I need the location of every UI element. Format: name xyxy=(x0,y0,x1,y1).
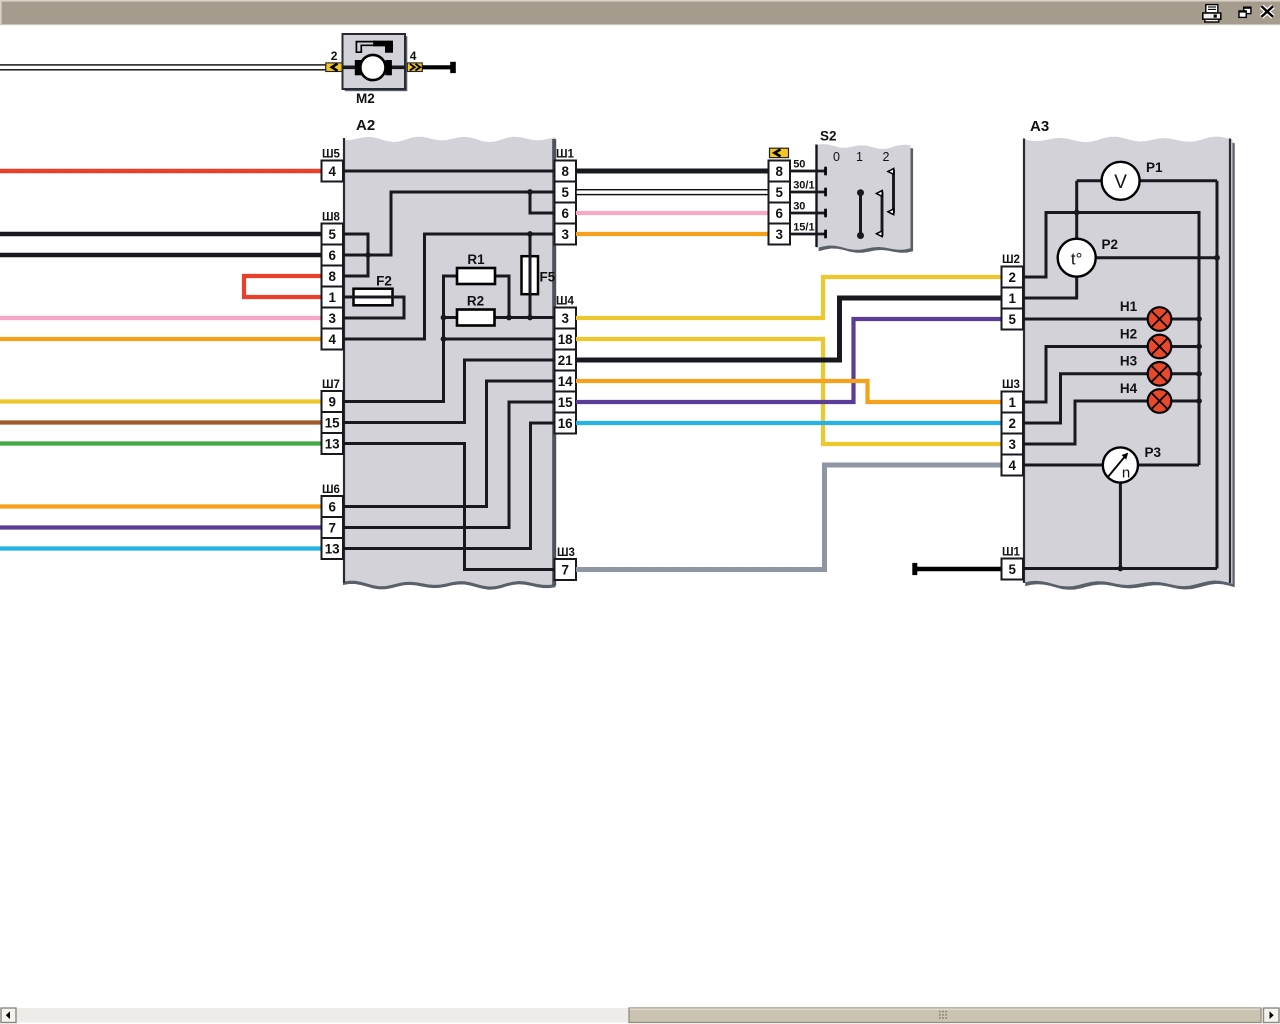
switch S2 block xyxy=(816,144,913,253)
svg-text:3: 3 xyxy=(561,227,568,242)
wire Ш2-5 to H1 xyxy=(1023,318,1148,321)
svg-text:Ш1: Ш1 xyxy=(556,149,575,161)
svg-text:P2: P2 xyxy=(1102,237,1119,252)
svg-text:7: 7 xyxy=(328,520,335,535)
svg-text:2: 2 xyxy=(331,49,338,63)
svg-text:H2: H2 xyxy=(1120,326,1137,341)
wire red jumper Ш8-8 to Ш8-1 xyxy=(244,276,322,297)
junction xyxy=(527,315,533,321)
svg-text:2: 2 xyxy=(1008,416,1015,431)
svg-text:16: 16 xyxy=(558,416,573,431)
wire black to Ш8-5 xyxy=(0,232,322,237)
svg-text:3: 3 xyxy=(775,227,782,242)
S2 contact bar position 2 inner xyxy=(876,191,882,237)
wire P1 left lead down to P2 xyxy=(1077,179,1102,182)
junction xyxy=(1214,255,1220,261)
wire F5 branch xyxy=(529,234,532,318)
wire orange Ш4-14 to Ш3-1 xyxy=(576,381,1002,402)
svg-text:6: 6 xyxy=(775,206,782,221)
svg-text:2: 2 xyxy=(1008,270,1015,285)
wire stub S2 row 6 xyxy=(790,212,826,215)
svg-text:21: 21 xyxy=(558,353,573,368)
svg-text:1: 1 xyxy=(1008,395,1016,410)
wire H4 right lead xyxy=(1171,400,1199,403)
svg-text:Ш7: Ш7 xyxy=(322,379,340,391)
svg-text:4: 4 xyxy=(410,49,417,63)
wire black from M2 pin 4 with terminal xyxy=(422,62,456,73)
wire orange Ш1-3 to S2 connector 3 xyxy=(576,232,769,236)
gauge P1 voltmeter xyxy=(1102,162,1140,200)
svg-text:50: 50 xyxy=(793,159,805,171)
junction xyxy=(1196,398,1202,404)
svg-text:4: 4 xyxy=(328,164,336,179)
lamp H1 xyxy=(1148,307,1172,331)
wire P2 bottom to Ш2-1 xyxy=(1023,277,1077,298)
print button xyxy=(1203,5,1221,22)
svg-text:1: 1 xyxy=(856,150,863,164)
wire H1 right lead xyxy=(1171,318,1199,321)
wire lightblue Ш4-16 to Ш3-2 xyxy=(576,421,1002,425)
close button xyxy=(1262,6,1274,16)
svg-text:Ш4: Ш4 xyxy=(556,296,575,308)
wire purple Ш4-15 to Ш2-5 xyxy=(576,319,1002,402)
svg-text:F5: F5 xyxy=(540,270,556,285)
svg-text:H4: H4 xyxy=(1120,381,1138,396)
junction xyxy=(365,252,371,258)
svg-text:3: 3 xyxy=(328,311,335,326)
svg-text:5: 5 xyxy=(1008,312,1016,327)
svg-text:7: 7 xyxy=(561,562,568,577)
svg-text:n: n xyxy=(1122,465,1130,482)
svg-text:A2: A2 xyxy=(356,117,375,134)
junction xyxy=(1196,344,1202,350)
junction xyxy=(1196,371,1202,377)
junction xyxy=(527,189,533,195)
svg-text:R2: R2 xyxy=(467,294,484,309)
lamp H3 xyxy=(1148,362,1172,386)
wire R2 row to Ш4-3 xyxy=(444,316,556,319)
svg-text:3: 3 xyxy=(1008,437,1015,452)
svg-text:4: 4 xyxy=(1008,458,1016,473)
junction xyxy=(1074,210,1080,216)
wire H3 right lead xyxy=(1171,372,1199,375)
wire P3 bottom xyxy=(1119,483,1122,569)
S2 contact bar position 1 xyxy=(857,189,864,239)
svg-text:Ш6: Ш6 xyxy=(322,484,340,496)
svg-text:13: 13 xyxy=(325,436,340,451)
svg-text:A3: A3 xyxy=(1030,118,1049,135)
svg-text:6: 6 xyxy=(328,499,335,514)
junction xyxy=(1196,316,1202,322)
junction xyxy=(1118,566,1124,572)
svg-text:P3: P3 xyxy=(1145,445,1162,460)
svg-text:8: 8 xyxy=(775,164,783,179)
wire ground row Ш1-5 xyxy=(1023,567,1217,570)
wire black to Ш8-6 xyxy=(0,253,322,258)
svg-text:1: 1 xyxy=(328,290,336,305)
svg-text:5: 5 xyxy=(775,185,783,200)
wire Ш6-6 to Ш4-14 xyxy=(343,381,556,507)
wire node down to Ш4-18 and Ш7-9 xyxy=(343,318,444,402)
S2 contact bar position 2 outer xyxy=(888,169,894,215)
wire Ш7-13 to Ш3-7 xyxy=(343,444,556,570)
gauge P3 tachometer xyxy=(1103,447,1138,482)
wire feed net from Ш2-2 xyxy=(1023,213,1199,466)
svg-text:14: 14 xyxy=(558,374,573,389)
wire P3 right lead xyxy=(1138,464,1199,467)
gauge P2 temperature xyxy=(1058,239,1096,277)
connector arrow at M2 pin 2 xyxy=(326,63,342,72)
resistor R1 xyxy=(457,268,495,284)
wire orange to Ш6-6 xyxy=(0,504,322,508)
wire Ш8-1 through F2 to Ш8-3 xyxy=(343,297,404,318)
resistor R2 xyxy=(457,310,495,326)
svg-text:5: 5 xyxy=(561,185,569,200)
svg-text:Ш3: Ш3 xyxy=(1002,379,1020,391)
wire P1 right lead xyxy=(1140,179,1217,182)
svg-text:5: 5 xyxy=(1008,562,1016,577)
svg-text:18: 18 xyxy=(558,332,573,347)
wire Ш5-4 to Ш1-8 xyxy=(343,170,556,173)
svg-text:13: 13 xyxy=(325,541,340,556)
svg-text:8: 8 xyxy=(328,269,336,284)
svg-text:F2: F2 xyxy=(376,274,392,289)
svg-text:1: 1 xyxy=(1008,291,1016,306)
wire Ш8-4 up to Ш1-3 xyxy=(343,234,556,339)
wire red to Ш5-4 xyxy=(0,169,322,173)
svg-text:9: 9 xyxy=(328,394,335,409)
svg-text:P1: P1 xyxy=(1146,160,1163,175)
svg-text:t°: t° xyxy=(1071,250,1083,269)
svg-text:Ш3: Ш3 xyxy=(557,547,575,559)
wire Ш7-15 to Ш4-21 xyxy=(343,360,556,423)
wire Ш3-3 to H4 xyxy=(1023,401,1148,444)
svg-text:R1: R1 xyxy=(467,252,485,267)
wire Ш3-2 to H3 xyxy=(1023,374,1148,423)
svg-text:H3: H3 xyxy=(1120,354,1138,369)
wire brown to Ш7-15 xyxy=(0,420,322,424)
wire Ш3-1 to H2 xyxy=(1023,347,1148,403)
wire gray Ш3-7 to Ш3-4 xyxy=(576,465,1002,570)
scrollbar thumb xyxy=(629,1008,1261,1023)
scrollbar right arrow button xyxy=(1264,1008,1280,1023)
wire yellow Ш4-18 to Ш3-3 xyxy=(576,339,1002,444)
wire black ground to A3 Ш1-5 xyxy=(912,563,1001,575)
wire stub S2 row 5 xyxy=(790,191,826,194)
wire green to Ш7-13 xyxy=(0,441,322,445)
svg-text:Ш2: Ш2 xyxy=(1002,254,1020,266)
svg-text:M2: M2 xyxy=(356,91,375,106)
svg-text:15/1: 15/1 xyxy=(793,222,814,234)
svg-text:6: 6 xyxy=(561,206,568,221)
wire P2 right lead xyxy=(1096,256,1217,259)
junction xyxy=(441,315,447,321)
svg-text:15: 15 xyxy=(325,415,340,430)
wire Ш3-4 to P3 xyxy=(1023,464,1103,467)
wire purple to Ш6-7 xyxy=(0,525,322,529)
svg-text:2: 2 xyxy=(883,150,890,164)
svg-text:Ш1: Ш1 xyxy=(1002,547,1021,559)
svg-text:0: 0 xyxy=(833,150,840,164)
resistor R1 leads xyxy=(444,276,458,318)
svg-text:3: 3 xyxy=(561,311,568,326)
connector arrow above S2 pins xyxy=(770,148,789,157)
svg-text:V: V xyxy=(1114,172,1127,193)
wire Ш6-13 to Ш4-16 xyxy=(343,423,556,549)
block A3 xyxy=(1023,137,1235,590)
wire Ш6-7 to Ш4-15 xyxy=(343,402,556,528)
svg-text:Ш8: Ш8 xyxy=(322,212,341,224)
svg-text:30/1: 30/1 xyxy=(793,180,814,192)
lamp H4 xyxy=(1148,389,1172,413)
wire stub S2 row 3 xyxy=(790,233,826,236)
svg-text:S2: S2 xyxy=(820,129,837,144)
svg-text:8: 8 xyxy=(561,164,569,179)
svg-text:6: 6 xyxy=(328,248,335,263)
wire white double Ш1-5 to S2 connector 5 xyxy=(576,190,769,195)
wire pink to Ш8-3 xyxy=(0,316,322,320)
title bar xyxy=(0,0,1280,25)
svg-text:4: 4 xyxy=(328,332,336,347)
wire H2 right lead xyxy=(1171,345,1199,348)
block A2 xyxy=(343,137,556,590)
wire pink Ш1-6 to S2 connector 6 xyxy=(576,211,769,215)
svg-text:30: 30 xyxy=(793,201,805,213)
motor M2 xyxy=(343,34,408,91)
svg-text:H1: H1 xyxy=(1120,299,1138,314)
wire net Ш1-5/Ш1-6 to Ш8-5/6/8 xyxy=(343,192,556,255)
wire yellow to Ш7-9 xyxy=(0,399,322,403)
restore button xyxy=(1238,7,1251,18)
wire ground vertical xyxy=(1216,181,1219,569)
junction xyxy=(441,336,447,342)
wire black Ш4-21 to Ш2-1 xyxy=(576,298,1002,360)
lamp H2 xyxy=(1148,335,1172,359)
junction xyxy=(527,231,533,237)
horizontal scrollbar track xyxy=(0,1008,1280,1023)
wire orange to Ш8-4 xyxy=(0,337,322,341)
connector arrow at M2 pin 4 xyxy=(407,63,422,72)
wire yellow Ш4-3 to Ш2-2 xyxy=(576,277,1002,318)
svg-text:15: 15 xyxy=(558,395,573,410)
wire lightblue to Ш6-13 xyxy=(0,546,322,550)
wire black Ш1-8 to S2 connector 8 xyxy=(576,169,769,174)
scrollbar left arrow button xyxy=(1,1008,16,1023)
svg-text:Ш5: Ш5 xyxy=(322,149,341,161)
wire white double to M2 pin 2 xyxy=(0,65,326,70)
fuse F2 xyxy=(354,289,393,306)
svg-text:5: 5 xyxy=(328,227,336,242)
fuse F5 xyxy=(522,256,539,294)
wire stub S2 row 8 xyxy=(790,170,826,173)
junction xyxy=(506,315,512,321)
